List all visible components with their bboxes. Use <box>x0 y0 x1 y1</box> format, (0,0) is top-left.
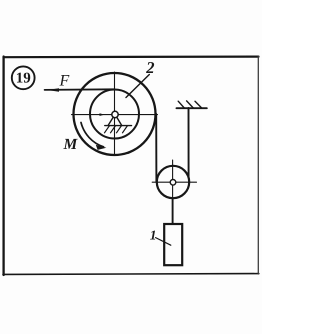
svg-text:2: 2 <box>145 58 154 77</box>
svg-text:F: F <box>59 73 70 90</box>
svg-text:1: 1 <box>150 227 157 242</box>
svg-text:19: 19 <box>16 70 31 86</box>
svg-text:M: M <box>63 136 79 153</box>
